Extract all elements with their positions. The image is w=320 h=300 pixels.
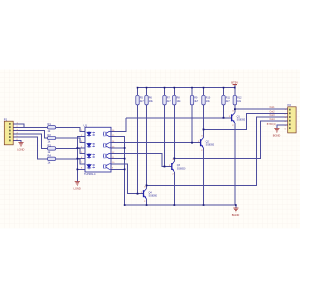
svg-text:R2: R2 [48, 133, 52, 137]
svg-text:R4: R4 [48, 154, 52, 158]
svg-text:U1: U1 [84, 123, 88, 127]
wire Q2 emitter down [203, 148, 205, 205]
resistor R11 [136, 95, 145, 105]
svg-text:P1: P1 [4, 117, 8, 121]
transistor Q2 [198, 135, 215, 152]
wire cathode stub 4 [77, 168, 85, 170]
wire P1 pin2 to R1 [13, 126, 47, 128]
wire P1 pin3 to R2 [13, 131, 47, 138]
svg-text:4k7: 4k7 [226, 100, 231, 103]
LED channel 2 [87, 143, 95, 148]
svg-text:SS8050: SS8050 [237, 119, 246, 122]
wire column R11 [137, 88, 139, 194]
phototransistor channel 3 [104, 153, 112, 158]
transistor Q4 [141, 186, 158, 203]
power BT5V [231, 81, 238, 85]
wire emitter stub 2 [111, 147, 125, 149]
LED channel 4 [87, 164, 95, 170]
resistor R18 [233, 95, 242, 105]
svg-text:4k7: 4k7 [140, 100, 145, 103]
wire P1 pin1 jog [13, 124, 24, 127]
svg-text:BTXD(1): BTXD(1) [267, 124, 276, 126]
svg-text:BGND: BGND [273, 134, 281, 138]
wire base2 [111, 142, 201, 144]
phototransistor channel 2 [104, 143, 112, 148]
wire emitter bus [111, 137, 125, 205]
svg-text:4k7: 4k7 [167, 100, 172, 103]
resistor R4 [48, 154, 56, 165]
svg-text:BT5V: BT5V [231, 81, 238, 85]
ground LGND1 [17, 143, 24, 152]
LED channel 3 [87, 153, 95, 158]
junction dots [77, 87, 237, 206]
svg-text:Out1: Out1 [270, 106, 276, 109]
wire out1 [235, 108, 288, 110]
svg-text:TLP281-4: TLP281-4 [84, 172, 96, 176]
wire R3 to U1 anode3 [56, 148, 85, 153]
LED channel 1 [87, 131, 95, 136]
resistor R2 [48, 133, 56, 144]
wire emitter stub 3 [111, 158, 125, 160]
wire R2 to U1 anode2 [56, 138, 85, 143]
resistor R13 [163, 95, 172, 105]
svg-text:LGND: LGND [17, 148, 24, 152]
wire C1 jog [111, 118, 126, 132]
wire BGND stem [235, 205, 237, 208]
resistor R3 [48, 143, 56, 154]
wire R1 to U1 anode1 [56, 127, 85, 131]
wire column R14 [173, 88, 175, 162]
connector P2 [285, 103, 297, 133]
wire power rail [138, 87, 235, 89]
wire column R12 [146, 88, 148, 189]
wire out2 [204, 113, 288, 129]
connector P1 [4, 117, 19, 144]
op-amp U1 optocoupler box [84, 123, 112, 176]
wire ground bus [125, 204, 236, 206]
transistor Q1 [229, 110, 246, 127]
wire C3 jog base3 [111, 153, 172, 166]
wire cathode bus [77, 137, 85, 182]
transistor Q3 [169, 159, 186, 176]
wire cathode stub 2 [77, 147, 85, 149]
svg-text:Out3: Out3 [270, 114, 276, 117]
svg-text:Out2: Out2 [270, 110, 276, 113]
svg-text:SS8050: SS8050 [206, 144, 215, 147]
svg-text:BGND: BGND [232, 213, 240, 217]
resistor R15 [190, 95, 199, 105]
wire cathode stub 3 [77, 158, 85, 160]
wire Q1 emitter down [234, 123, 236, 205]
wire Q4 emitter down [146, 199, 148, 205]
IC pin numbers right [112, 130, 115, 170]
svg-text:R3: R3 [48, 143, 52, 147]
wire P1 pin4 to R3 [13, 134, 47, 149]
svg-text:SS8050: SS8050 [177, 167, 186, 170]
svg-text:4k7: 4k7 [194, 100, 199, 103]
wire base1 [126, 117, 231, 119]
resistor R1 [48, 122, 56, 133]
ground LGND2 [74, 182, 81, 191]
wire P1 pin6 to ground [13, 141, 21, 143]
resistor R14 [173, 95, 182, 105]
wire emitter stub 4 [111, 168, 125, 170]
phototransistor channel 1 [104, 131, 112, 136]
wire R4 to U1 anode4 [56, 159, 85, 164]
phototransistor channel 4 [104, 164, 112, 170]
svg-text:R1: R1 [48, 122, 52, 126]
resistor R12 [145, 95, 154, 105]
svg-text:P2: P2 [288, 103, 292, 107]
wire P2 gnd stub [277, 125, 288, 128]
wire out4 [147, 117, 288, 185]
wire power stem [234, 85, 236, 88]
ground BGND1 [232, 208, 240, 217]
svg-text:LGND: LGND [74, 187, 81, 191]
wire C4 jog base4 [111, 164, 144, 194]
wire column R16 [203, 88, 205, 138]
wire column R13 [164, 88, 166, 167]
svg-text:SS8050: SS8050 [149, 195, 158, 198]
wire column R15 [191, 88, 193, 143]
ground BGND2 [273, 128, 281, 137]
svg-text:Out4: Out4 [270, 118, 276, 121]
resistor R17 [222, 95, 231, 105]
wire column R17 [223, 88, 225, 118]
wire P1 pin5 to R4 [13, 137, 47, 159]
wire column R18 [234, 88, 236, 113]
wire out3 [174, 121, 287, 158]
IC pin numbers left [81, 130, 83, 170]
wire Q3 emitter down [173, 172, 175, 205]
resistor R16 [202, 95, 211, 105]
